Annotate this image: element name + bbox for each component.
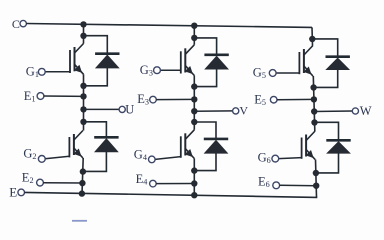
wire cathode branch of D1: [84, 36, 108, 54]
wire gate lead of Q1: [45, 71, 70, 73]
node E4 tap: [191, 180, 197, 186]
terminal V: [233, 104, 249, 118]
terminal G2: [23, 147, 45, 163]
wire cathode branch of D6: [315, 122, 339, 140]
wire negative rail E: [25, 192, 318, 197]
node Q3 emitter / D3 anode: [191, 83, 197, 89]
wire E5 lead: [277, 98, 314, 100]
terminal G6: [258, 150, 279, 165]
wire leg2 collector segment: [193, 26, 195, 45]
wire leg3 collector segment: [311, 27, 314, 45]
wire anode branch of D3: [194, 69, 216, 87]
wire gate lead of Q6: [279, 158, 302, 159]
wire gate lead of Q5: [276, 72, 300, 74]
svg-text:W: W: [360, 104, 372, 118]
node U junction: [80, 106, 86, 112]
terminal E6: [258, 175, 280, 190]
wire E1 lead: [44, 95, 84, 97]
svg-text:V: V: [239, 104, 248, 118]
node E1 tap: [80, 93, 86, 99]
node E6 tap: [313, 183, 319, 189]
node Q4 collector / D4 cathode tap: [191, 119, 197, 125]
node rail-leg2 junction: [191, 23, 197, 29]
wire gate lead of Q4: [155, 157, 181, 160]
node E3 tap: [191, 96, 197, 102]
terminal E: [9, 185, 24, 200]
wire E2 lead: [43, 182, 82, 184]
IGBT Q1: [70, 44, 84, 75]
terminal C: [12, 17, 27, 31]
terminal E5: [254, 92, 277, 107]
wire gate lead of Q3: [160, 69, 181, 71]
wire W lead: [314, 110, 352, 113]
terminal E4: [136, 172, 157, 187]
wire positive rail C: [26, 24, 312, 28]
terminal G3: [140, 63, 161, 78]
wire leg3 mid segment: [313, 76, 315, 131]
diode D3: [204, 55, 229, 70]
wire anode branch of D1: [84, 68, 108, 86]
diode D6: [326, 140, 351, 153]
node E5 tap: [311, 96, 317, 102]
wire U lead: [84, 108, 120, 110]
IGBT Q5: [299, 46, 313, 77]
svg-text:U: U: [125, 103, 134, 117]
terminal G5: [253, 66, 276, 81]
node Q1 emitter / D1 anode: [80, 83, 86, 89]
wire V lead: [194, 110, 232, 112]
svg-text:E: E: [9, 185, 17, 200]
node V junction: [191, 108, 197, 114]
terminal G4: [134, 147, 155, 162]
terminal G1: [26, 64, 45, 79]
terminal W: [352, 104, 372, 118]
wire leg1 collector segment: [83, 24, 85, 43]
node Q2 collector / D2 cathode tap: [80, 119, 86, 125]
wire leg2 mid segment: [193, 76, 195, 130]
wire leg2 emitter segment: [193, 159, 195, 196]
node Q5 emitter / D5 anode: [310, 84, 316, 90]
wire leg1 emitter segment: [82, 158, 83, 194]
wire gate lead of Q2: [45, 156, 69, 159]
node D4 anode: [191, 167, 197, 173]
node rail-leg1 junction: [80, 21, 86, 27]
diode D5: [325, 57, 350, 70]
node D6 anode: [313, 170, 319, 176]
wire anode branch of D2: [83, 152, 107, 172]
node D1 cathode tap: [80, 33, 86, 39]
node Q6 collector / D6 cathode tap: [311, 119, 317, 125]
wire leg1 mid segment: [83, 74, 85, 130]
wire E4 lead: [156, 183, 194, 185]
wire E6 lead: [280, 184, 317, 186]
IGBT Q2: [69, 131, 83, 159]
IGBT Q4: [181, 130, 195, 159]
node D2 anode: [80, 168, 86, 174]
node D3 cathode tap: [191, 35, 197, 41]
diode D2: [94, 137, 119, 152]
node rail-leg1 bottom junction: [79, 190, 85, 196]
node W junction: [311, 108, 317, 114]
svg-text:C: C: [12, 17, 20, 31]
diode D4: [204, 139, 229, 154]
diode D1: [95, 54, 120, 69]
terminal E2: [22, 171, 44, 186]
node D5 cathode tap: [309, 36, 315, 42]
terminal E3: [137, 92, 156, 107]
IGBT Q3: [181, 45, 195, 76]
wire cathode branch of D5: [312, 39, 337, 57]
stray scan mark: [72, 220, 87, 222]
wire anode branch of D6: [316, 153, 339, 173]
terminal E1: [24, 89, 44, 104]
terminal U: [119, 103, 134, 117]
node E2 tap: [79, 180, 85, 186]
wire anode branch of D4: [194, 153, 216, 171]
wire cathode branch of D4: [194, 122, 216, 139]
wire cathode branch of D3: [194, 38, 216, 55]
wire leg3 emitter segment: [316, 160, 317, 198]
wire cathode branch of D2: [84, 122, 107, 138]
node rail-leg2 bottom junction: [191, 192, 197, 198]
wire anode branch of D5: [314, 69, 338, 87]
IGBT Q6: [302, 131, 316, 160]
wire E3 lead: [156, 98, 194, 100]
